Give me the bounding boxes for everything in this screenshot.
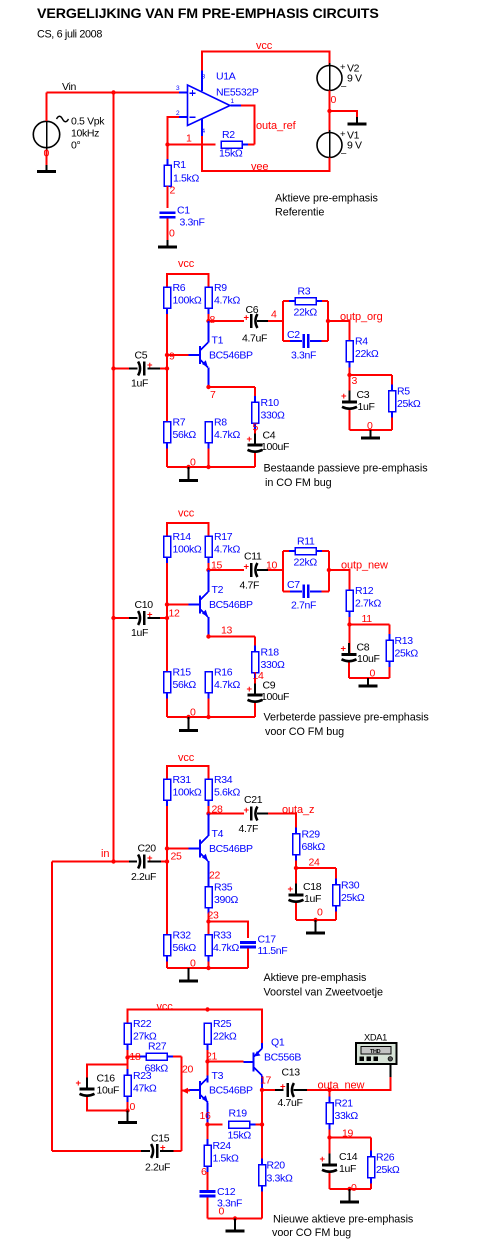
wire [114,605,168,672]
svg-text:C8: C8 [357,642,370,654]
capacitor C18 [288,881,322,912]
resistor R20 [259,1125,293,1219]
node junction C5 [111,366,169,370]
op-amp U1A [176,71,259,137]
wire vertical to C15 [181,1057,183,1152]
capacitor C3 [341,389,375,419]
wire [207,1197,209,1218]
wire [209,813,245,815]
svg-text:+: + [147,360,153,371]
annotation [264,462,429,489]
svg-text:100kΩ: 100kΩ [173,295,202,307]
capacitor C5 [131,350,153,390]
svg-text:T1: T1 [212,335,224,347]
wire [329,570,350,590]
wire [87,1097,130,1113]
wire [208,861,210,887]
svg-text:C12: C12 [217,1186,236,1198]
svg-text:Aktieve pre-emphasis: Aktieve pre-emphasis [264,972,367,984]
svg-text:22kΩ: 22kΩ [355,348,379,360]
wire [261,1090,263,1128]
transistor T1 [189,335,254,368]
resistor R24 [204,1125,239,1191]
wire [247,948,249,968]
node 3 [347,373,357,387]
svg-text:100kΩ: 100kΩ [173,544,202,556]
svg-text:56kΩ: 56kΩ [173,679,197,691]
svg-text:0: 0 [331,94,337,106]
svg-text:12: 12 [169,608,180,620]
wire [208,368,210,388]
resistor R13 [386,625,418,679]
resistor R9 [205,282,240,321]
svg-text:6: 6 [201,1166,207,1178]
capacitor C10 [131,599,153,639]
wire [261,1043,263,1049]
resistor R17 [205,531,240,570]
source V1 [317,129,362,160]
wire [52,1150,182,1152]
wire [209,569,245,571]
svg-text:100kΩ: 100kΩ [173,787,202,799]
svg-text:1: 1 [231,98,235,105]
resistor R15 [164,667,197,717]
node 18 [125,1051,141,1063]
resistor R26 [368,1138,400,1190]
svg-text:R33: R33 [213,930,232,942]
svg-text:9: 9 [169,351,175,363]
svg-text:Q1: Q1 [271,1037,285,1049]
svg-text:vcc: vcc [157,1001,174,1013]
resistor R10 [252,387,285,436]
capacitor C20 [131,843,156,884]
wire [295,868,297,894]
resistor R8 [205,417,240,467]
svg-text:R4: R4 [355,336,368,348]
svg-text:1uF: 1uF [131,627,148,639]
svg-text:R10: R10 [261,397,280,409]
wire [167,186,169,208]
svg-text:47kΩ: 47kΩ [133,1083,157,1095]
wire [231,106,255,145]
svg-text:outa_ref: outa_ref [256,120,297,132]
wire [167,465,255,469]
svg-text:in CO FM bug: in CO FM bug [265,477,332,489]
svg-text:R6: R6 [173,282,186,294]
svg-text:R1: R1 [173,159,186,171]
node 28 [206,804,223,816]
svg-text:+: + [288,884,294,895]
annotation [275,192,378,218]
transistor Q1 [244,1037,302,1076]
node 17 [260,1075,272,1093]
svg-text:4.7kΩ: 4.7kΩ [214,295,240,307]
wire [257,814,296,834]
wire [330,111,358,117]
wire [167,715,255,719]
svg-text:CS, 6 juli 2008: CS, 6 juli 2008 [37,28,102,40]
svg-text:4.7kΩ: 4.7kΩ [214,429,240,441]
svg-text:C3: C3 [357,389,370,401]
wire [46,93,48,122]
svg-text:T3: T3 [212,1070,224,1082]
annotation [264,972,383,999]
node 24 [294,857,320,871]
svg-text:vcc: vcc [256,40,273,52]
wire [350,624,390,626]
instrument XDA1 [356,1032,397,1064]
wire right vertical of R3||C2 [327,301,329,341]
node junction outp_org [326,319,330,323]
svg-text:0°: 0° [71,140,80,152]
node junction in-rail [111,90,115,94]
svg-text:BC546BP: BC546BP [209,1085,253,1097]
svg-text:vee: vee [251,161,268,173]
wire left vertical of R3||C2 [282,301,284,341]
wire [261,1076,263,1091]
wire [208,1124,223,1126]
svg-text:C10: C10 [135,599,154,611]
svg-text:17: 17 [260,1075,271,1087]
resistor R5 [389,375,421,430]
svg-text:0: 0 [351,1182,357,1194]
wire [257,569,283,571]
svg-text:Vin: Vin [62,81,76,93]
svg-text:BC546BP: BC546BP [209,599,253,611]
svg-text:4.7kΩ: 4.7kΩ [214,679,240,691]
resistor R32 [164,930,197,968]
svg-text:390Ω: 390Ω [214,894,238,906]
svg-text:16: 16 [200,1110,211,1122]
resistor R4 [346,336,379,375]
resistor R22 [124,1018,157,1057]
resistor R18 [252,637,285,687]
svg-text:R7: R7 [173,417,186,429]
svg-text:C11: C11 [244,551,262,563]
svg-text:10uF: 10uF [357,653,380,665]
wire right vertical of R11||C7 [328,551,330,591]
svg-text:0: 0 [169,228,175,240]
svg-text:vcc: vcc [178,258,195,270]
wire [208,321,210,343]
svg-text:+: + [340,129,346,140]
svg-text:R31: R31 [173,774,192,786]
ground [226,1219,245,1233]
svg-text:56kΩ: 56kΩ [173,429,197,441]
source V2 [317,62,362,93]
svg-text:4.7uF: 4.7uF [278,1097,303,1109]
svg-text:C6: C6 [246,304,259,316]
svg-text:voor CO FM bug: voor CO FM bug [265,726,344,738]
wire [52,859,169,863]
svg-text:7: 7 [210,389,216,401]
wire base of T2 [167,604,189,606]
svg-text:outa_z: outa_z [282,804,314,816]
svg-text:C9: C9 [263,680,276,692]
svg-text:T4: T4 [212,828,224,840]
wire [294,1089,330,1091]
svg-text:5.6kΩ: 5.6kΩ [214,787,240,799]
svg-text:22: 22 [209,870,220,882]
svg-text:9 V: 9 V [347,73,362,85]
wire [262,1089,284,1091]
resistor R33 [205,930,239,968]
svg-text:4.7F: 4.7F [239,823,259,835]
svg-text:THD: THD [370,1049,381,1055]
svg-text:25: 25 [171,851,182,863]
wire base of T3 [182,1088,190,1094]
node junction V-mid [327,109,331,113]
svg-text:+: + [244,561,250,572]
svg-text:C17: C17 [258,934,277,946]
ground [348,117,367,126]
wire [167,274,209,287]
svg-text:1uF: 1uF [358,401,375,413]
resistor R6 [164,282,202,355]
resistor R12 [346,585,381,624]
svg-text:C2: C2 [287,329,300,341]
capacitor C13 [278,1067,303,1110]
svg-text:10kHz: 10kHz [71,128,99,140]
wire long input rail [113,93,115,862]
svg-text:C13: C13 [282,1067,301,1079]
ground [158,240,177,249]
svg-text:4.7F: 4.7F [240,580,260,592]
wire [167,219,169,240]
ground [37,150,56,173]
svg-text:3: 3 [352,375,358,387]
wire [168,144,216,146]
svg-text:4: 4 [202,128,206,135]
svg-text:0: 0 [190,958,196,970]
wire [209,636,256,638]
svg-text:+: + [340,62,346,73]
wire [349,677,390,679]
svg-text:4.7kΩ: 4.7kΩ [214,544,240,556]
node 8 [206,314,215,326]
wire [202,136,330,171]
svg-text:33kΩ: 33kΩ [335,1110,359,1122]
svg-text:Aktieve pre-emphasis: Aktieve pre-emphasis [275,192,378,204]
resistor R30 [333,868,365,920]
capacitor C14 [320,1151,358,1182]
svg-text:100uF: 100uF [261,441,289,453]
resistor R21 [326,1090,358,1138]
wire left vertical of R11||C7 [282,551,284,591]
svg-text:C1: C1 [177,205,190,217]
ground [118,1111,137,1125]
wire [254,453,256,467]
node 25 [165,846,182,862]
svg-text:20: 20 [182,1064,193,1076]
wire [257,320,283,322]
svg-text:1: 1 [186,133,192,145]
wire [207,1062,209,1076]
svg-text:22kΩ: 22kΩ [294,557,318,569]
ground [340,1189,359,1204]
ground [306,920,325,935]
svg-text:1uF: 1uF [304,893,321,905]
svg-text:3: 3 [176,85,180,92]
svg-text:1.5kΩ: 1.5kΩ [213,1153,239,1165]
svg-text:R17: R17 [214,531,233,543]
svg-text:XDA1: XDA1 [364,1032,387,1042]
svg-text:R20: R20 [267,1160,286,1172]
svg-text:0.5 Vpk: 0.5 Vpk [71,116,105,128]
node junction C10 [111,616,169,620]
wire base of Q1 [208,1061,244,1063]
svg-text:BC546BP: BC546BP [209,350,253,362]
svg-text:R3: R3 [298,286,311,298]
resistor R27 [128,1041,182,1075]
svg-text:0: 0 [190,707,196,719]
wire [207,1076,209,1083]
resistor R34 [205,774,240,813]
capacitor C11 [240,551,262,592]
svg-text:R30: R30 [341,880,360,892]
svg-text:+: + [76,1078,82,1089]
svg-text:NE5532P: NE5532P [216,87,259,99]
svg-text:Nieuwe aktieve pre-emphasis: Nieuwe aktieve pre-emphasis [273,1213,414,1225]
svg-text:Voorstel van Zweetvoetje: Voorstel van Zweetvoetje [264,986,383,998]
svg-text:R21: R21 [335,1098,354,1110]
resistor R35 [205,882,238,922]
node junction R25-vcc [205,1007,209,1011]
wire [283,590,329,592]
capacitor C8 [341,642,380,672]
svg-text:R24: R24 [213,1140,232,1152]
capacitor C7 [287,579,316,612]
svg-text:C20: C20 [138,843,157,855]
node 16 [200,1110,211,1127]
wire [208,1216,263,1220]
ground [359,678,378,688]
svg-text:8: 8 [202,74,206,81]
wire [47,92,188,94]
wire [167,766,209,779]
svg-text:2: 2 [170,185,176,197]
svg-text:25kΩ: 25kΩ [397,398,421,410]
node 13 [206,625,232,639]
node 9 [165,351,175,363]
resistor R1 [164,145,199,187]
svg-text:R32: R32 [173,930,192,942]
svg-text:R13: R13 [395,635,414,647]
svg-text:R26: R26 [376,1152,395,1164]
svg-text:U1A: U1A [216,71,236,83]
wire [208,570,210,592]
wire [209,386,256,388]
svg-text:R16: R16 [214,667,233,679]
svg-text:10: 10 [266,560,277,572]
resistor R14 [164,531,202,604]
svg-text:R14: R14 [173,531,192,543]
wire [167,523,209,536]
svg-text:2.2uF: 2.2uF [145,1162,170,1174]
svg-text:4.7uF: 4.7uF [242,333,267,345]
wire [330,1187,372,1191]
node junction R21 [327,1088,331,1092]
svg-text:25kΩ: 25kΩ [376,1164,400,1176]
svg-text:25kΩ: 25kΩ [341,892,365,904]
wire [208,814,210,837]
resistor R31 [164,774,202,848]
wire [350,374,393,376]
svg-text:C14: C14 [339,1151,358,1163]
svg-text:R35: R35 [214,882,233,894]
svg-text:Bestaande passieve pre-emphasi: Bestaande passieve pre-emphasis [264,462,429,474]
svg-text:R27: R27 [148,1041,167,1053]
resistor R7 [164,417,197,467]
node junction in-rail2 [111,859,115,863]
wire [295,903,297,920]
svg-text:15kΩ: 15kΩ [228,1130,252,1142]
resistor R3 [283,286,328,319]
wire [328,321,350,341]
resistor R2 [219,129,255,160]
svg-text:3.3nF: 3.3nF [291,350,316,362]
svg-text:C5: C5 [135,350,148,362]
ground [361,430,380,440]
svg-text:56kΩ: 56kΩ [173,942,197,954]
svg-text:5: 5 [253,422,259,434]
svg-text:R9: R9 [214,282,227,294]
capacitor C16 [76,1073,120,1107]
svg-text:+: + [320,1154,326,1165]
svg-text:C21: C21 [244,794,263,806]
svg-text:11.5nF: 11.5nF [258,945,288,957]
svg-text:+: + [341,391,347,402]
node 19 [327,1128,353,1140]
wire [283,340,328,342]
resistor R11 [283,536,329,569]
svg-text:R8: R8 [214,417,227,429]
svg-text:0: 0 [130,1101,136,1113]
wire [128,1010,263,1044]
wire [208,922,210,935]
wire [349,410,351,430]
svg-text:4: 4 [271,309,277,321]
svg-text:VERGELIJKING VAN FM PRE-EMPHAS: VERGELIJKING VAN FM PRE-EMPHASIS CIRCUIT… [37,6,379,22]
wire [168,117,188,145]
resistor R23 [124,1058,157,1111]
wire [254,703,256,717]
svg-text:0: 0 [317,907,323,919]
svg-text:C4: C4 [263,430,276,442]
svg-text:vcc: vcc [178,508,195,520]
capacitor C4 [247,430,290,463]
svg-text:R2: R2 [222,129,235,141]
wire [329,91,331,133]
svg-text:R29: R29 [302,829,321,841]
svg-text:10uF: 10uF [97,1085,120,1097]
svg-text:+: + [244,805,250,816]
capacitor C1 [160,205,205,229]
transistor T2 [189,584,254,617]
svg-text:in: in [101,848,109,860]
ground [179,467,198,482]
source Vin [33,81,105,152]
svg-text:C15: C15 [151,1133,170,1145]
wire [208,617,210,637]
wire base of T1 [167,354,189,356]
svg-text:+: + [247,434,253,445]
svg-text:+: + [247,684,253,695]
svg-text:R11: R11 [297,536,315,548]
wire [207,1103,209,1125]
node 12 [165,602,180,619]
svg-text:vcc: vcc [178,752,195,764]
